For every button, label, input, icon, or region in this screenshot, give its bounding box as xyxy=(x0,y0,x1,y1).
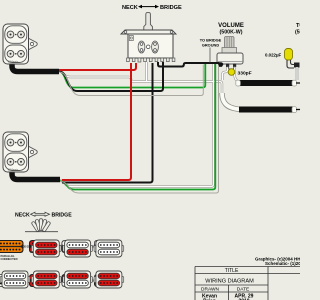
svg-text:NECK: NECK xyxy=(15,213,30,219)
svg-text:VOLUME: VOLUME xyxy=(218,23,244,29)
svg-text:TITLE: TITLE xyxy=(225,268,239,274)
svg-text:CONNECTED: CONNECTED xyxy=(1,257,18,261)
svg-text:DRAWN: DRAWN xyxy=(201,287,219,293)
svg-text:DiMarzio: DiMarzio xyxy=(8,60,19,64)
svg-text:Schematic- (1)200: Schematic- (1)200 xyxy=(265,261,300,266)
svg-text:330pF: 330pF xyxy=(238,71,252,77)
svg-text:(500K-W): (500K-W) xyxy=(220,30,243,36)
svg-text:GROUND: GROUND xyxy=(202,43,219,48)
svg-text:WIRING DIAGRAM: WIRING DIAGRAM xyxy=(205,279,254,285)
svg-text:0.022µF: 0.022µF xyxy=(265,53,282,58)
svg-text:BRIDGE: BRIDGE xyxy=(160,5,182,11)
svg-text:BRIDGE: BRIDGE xyxy=(52,213,73,219)
svg-text:NECK: NECK xyxy=(122,5,138,11)
svg-text:TONE: TONE xyxy=(296,23,300,29)
svg-text:(500K): (500K) xyxy=(295,30,300,36)
svg-text:DATE: DATE xyxy=(237,287,249,293)
